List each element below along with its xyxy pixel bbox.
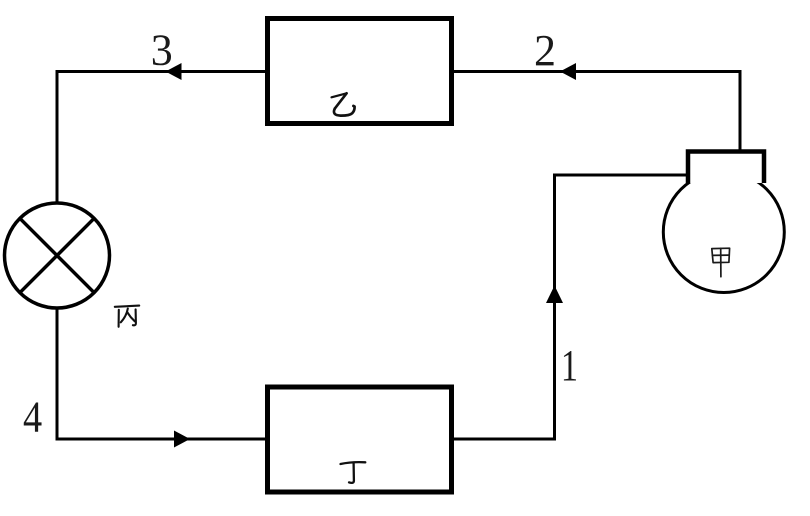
arrowhead on wire 4 (pointing right) bbox=[174, 431, 190, 448]
wire segment 4: from valve 丙 bottom to 丁 left side bbox=[57, 308, 266, 439]
arrowhead on wire 3 (pointing left) bbox=[166, 63, 182, 80]
arrowhead on wire 2 (pointing left) bbox=[560, 63, 576, 80]
label 丙 bbox=[115, 306, 139, 327]
wire segment 2: from compressor 甲 cap top to 乙 right side bbox=[453, 72, 740, 151]
evaporator box 丁 bbox=[268, 387, 452, 492]
condenser box 乙 bbox=[268, 19, 452, 124]
svg-text:4: 4 bbox=[23, 392, 42, 441]
valve diagonal \ bbox=[20, 219, 94, 293]
arrowhead on wire 1 (pointing up) bbox=[546, 286, 563, 304]
label 甲 bbox=[712, 248, 730, 277]
valve diagonal / bbox=[20, 219, 94, 293]
compressor cap bbox=[688, 152, 764, 184]
wire segment 1: from 丁 right side up to compressor 甲 left bbox=[453, 175, 687, 439]
wire segment 3: from 乙 left side to valve 丙 top bbox=[57, 72, 266, 204]
svg-text:1: 1 bbox=[561, 341, 578, 390]
svg-text:2: 2 bbox=[534, 26, 556, 75]
svg-text:3: 3 bbox=[151, 25, 173, 74]
compressor 甲 (circle) bbox=[663, 172, 784, 293]
expansion valve 丙 (circle with X) bbox=[5, 203, 110, 308]
label 丁 bbox=[341, 462, 366, 483]
label 乙 bbox=[332, 93, 355, 115]
